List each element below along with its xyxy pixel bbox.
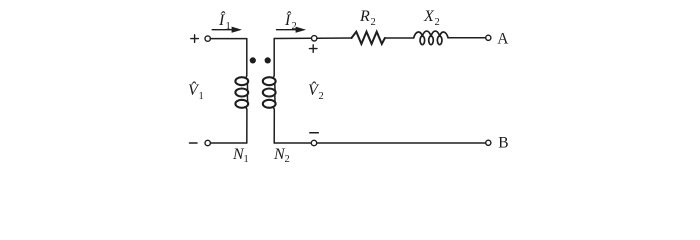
wire secondary bottom left [274, 142, 311, 144]
polarity dot N2 [265, 57, 271, 63]
wire to resistor [317, 37, 352, 39]
svg-text:R: R [359, 8, 370, 25]
wire top-left [210, 38, 246, 40]
wire resistor to inductor [385, 37, 414, 39]
minus sign primary [190, 142, 198, 144]
plus sign primary [191, 35, 199, 43]
svg-text:1: 1 [244, 154, 249, 165]
inductor X2 [414, 31, 448, 45]
svg-text:2: 2 [292, 21, 297, 32]
polarity dot N1 [250, 57, 256, 63]
svg-text:2: 2 [371, 17, 376, 28]
svg-text:2: 2 [319, 91, 324, 102]
wire secondary top [274, 37, 311, 39]
terminal circle primary top [205, 36, 210, 41]
svg-text:1: 1 [226, 21, 231, 32]
terminal circle B [486, 140, 491, 145]
winding N2 [263, 39, 276, 144]
terminal circle secondary top [312, 36, 317, 41]
svg-text:X: X [423, 8, 435, 25]
svg-text:1: 1 [199, 91, 204, 102]
svg-text:A: A [497, 31, 509, 48]
current arrow I2 [277, 27, 307, 33]
minus sign secondary [310, 132, 319, 134]
current arrow I1 [212, 27, 242, 33]
winding N1 [235, 39, 248, 143]
wire bottom to B [317, 142, 486, 144]
terminal circle secondary bottom [311, 140, 316, 145]
wire inductor to A [448, 37, 486, 39]
terminal circle A [486, 35, 491, 40]
svg-text:2: 2 [435, 17, 440, 28]
wire bottom-left [210, 142, 246, 144]
svg-text:B: B [498, 135, 508, 152]
svg-text:2: 2 [285, 154, 290, 165]
terminal circle primary bottom [205, 140, 210, 145]
plus sign secondary [309, 45, 317, 53]
resistor R2 zigzag [352, 32, 385, 44]
